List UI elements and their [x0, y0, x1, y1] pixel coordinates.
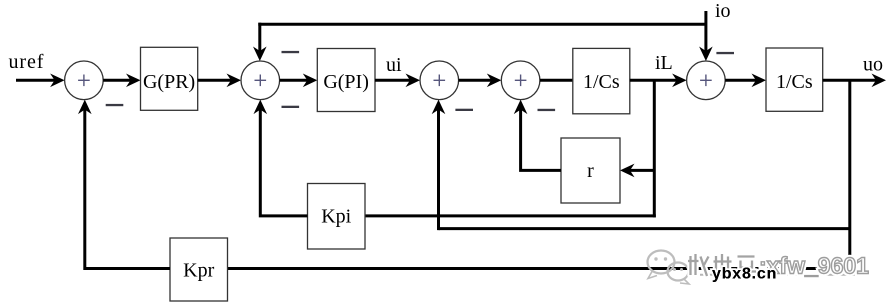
svg-text:1/Cs: 1/Cs [583, 71, 620, 93]
wire G(PI) to S3 [375, 79, 411, 82]
svg-text:Kpr: Kpr [183, 260, 214, 282]
wire S1 to G(PR) [103, 79, 131, 82]
svg-text:Kpi: Kpi [321, 206, 351, 228]
summing junction S4 [501, 61, 540, 100]
wire iL tap vertical [653, 80, 656, 217]
arrowhead io into S2 [253, 47, 267, 62]
arrowhead io into S5 [699, 47, 713, 62]
svg-text:1/Cs: 1/Cs [776, 71, 813, 93]
minus sign at S1 lower input [106, 104, 124, 106]
wire G(PR) to S2 [198, 79, 232, 82]
wire Kpi line right [365, 214, 656, 217]
svg-text:G(PR): G(PR) [143, 71, 195, 93]
wire uo tap vertical [848, 80, 851, 270]
svg-text:io: io [715, 0, 731, 22]
plus sign in S2 [255, 75, 267, 87]
wire r output to S4 [521, 109, 561, 170]
wire io vertical into S5 [704, 11, 707, 52]
svg-text:ybx8.cn: ybx8.cn [712, 266, 777, 283]
summing junction S1 [65, 61, 104, 100]
block G(PR) [141, 47, 198, 110]
arrowhead r into S4 [514, 100, 528, 115]
arrowhead into G(PR) [126, 74, 141, 88]
wire uo feedback vertical to S3 [437, 109, 440, 230]
block G(PI) [317, 49, 375, 112]
svg-text:ui: ui [386, 54, 402, 76]
wire into r block [630, 169, 655, 172]
wire S4 to 1/Cs first block [540, 79, 573, 82]
wire io drop into S2 [258, 23, 261, 52]
arrowhead into summing junction S5 [672, 74, 687, 88]
watermark wechat icon [648, 251, 690, 285]
arrowhead output [872, 74, 887, 88]
minus sign at S2 bottom input [282, 106, 300, 108]
summing junction S3 [420, 61, 459, 100]
wire 1/Cs to S5 [630, 79, 677, 82]
summing junction S5 [687, 61, 726, 100]
block 1/Cs first [573, 48, 630, 113]
svg-text:r: r [587, 160, 594, 182]
block Kpi [308, 184, 366, 250]
svg-text:uref: uref [9, 51, 45, 73]
arrowhead into summing junction S2 [227, 74, 242, 88]
arrowhead into second 1/Cs [752, 74, 767, 88]
wire Kpr output to S1 [85, 109, 170, 268]
block r [561, 138, 620, 203]
arrowhead into summing junction S1 [50, 74, 65, 88]
plus sign in S4 [515, 75, 527, 87]
plus sign in S5 [700, 75, 712, 87]
wire S5 to 1/Cs second block [725, 79, 756, 82]
plus sign in S1 [78, 75, 90, 87]
minus sign at S4 bottom input [538, 109, 556, 111]
arrowhead into G(PI) [303, 74, 318, 88]
summing junction S2 [241, 61, 280, 100]
minus sign at S2 top input [282, 51, 300, 53]
svg-text:G(PI): G(PI) [323, 71, 369, 93]
watermark text wei xin hao [688, 254, 756, 276]
watermark underline [700, 274, 864, 276]
arrowhead into summing junction S3 [406, 74, 421, 88]
block Kpr [170, 238, 228, 301]
block 1/Cs second [766, 48, 823, 111]
wire uo feedback to S3 horizontal [439, 227, 850, 230]
arrowhead into summing junction S4 [487, 74, 502, 88]
wire Kpi output to S2 [260, 109, 307, 216]
wire S3 to S4 [459, 79, 492, 82]
arrowhead Kpi into S2 [254, 100, 268, 115]
arrowhead Kpr into S1 [78, 100, 92, 115]
plus sign in S3 [434, 75, 446, 87]
wire Kpr line right segment [228, 267, 850, 270]
svg-text:iL: iL [655, 52, 673, 74]
minus sign at S5 top input [716, 52, 734, 54]
arrowhead into r block [620, 164, 635, 178]
minus sign at S3 bottom input [455, 109, 473, 111]
wire output uo [823, 79, 877, 82]
wire S2 to G(PI) [280, 79, 308, 82]
wire uref input [16, 79, 55, 82]
arrowhead uo into S3 [432, 100, 446, 115]
svg-text:uo: uo [863, 54, 883, 76]
wire io feed horizontal top [258, 23, 706, 26]
